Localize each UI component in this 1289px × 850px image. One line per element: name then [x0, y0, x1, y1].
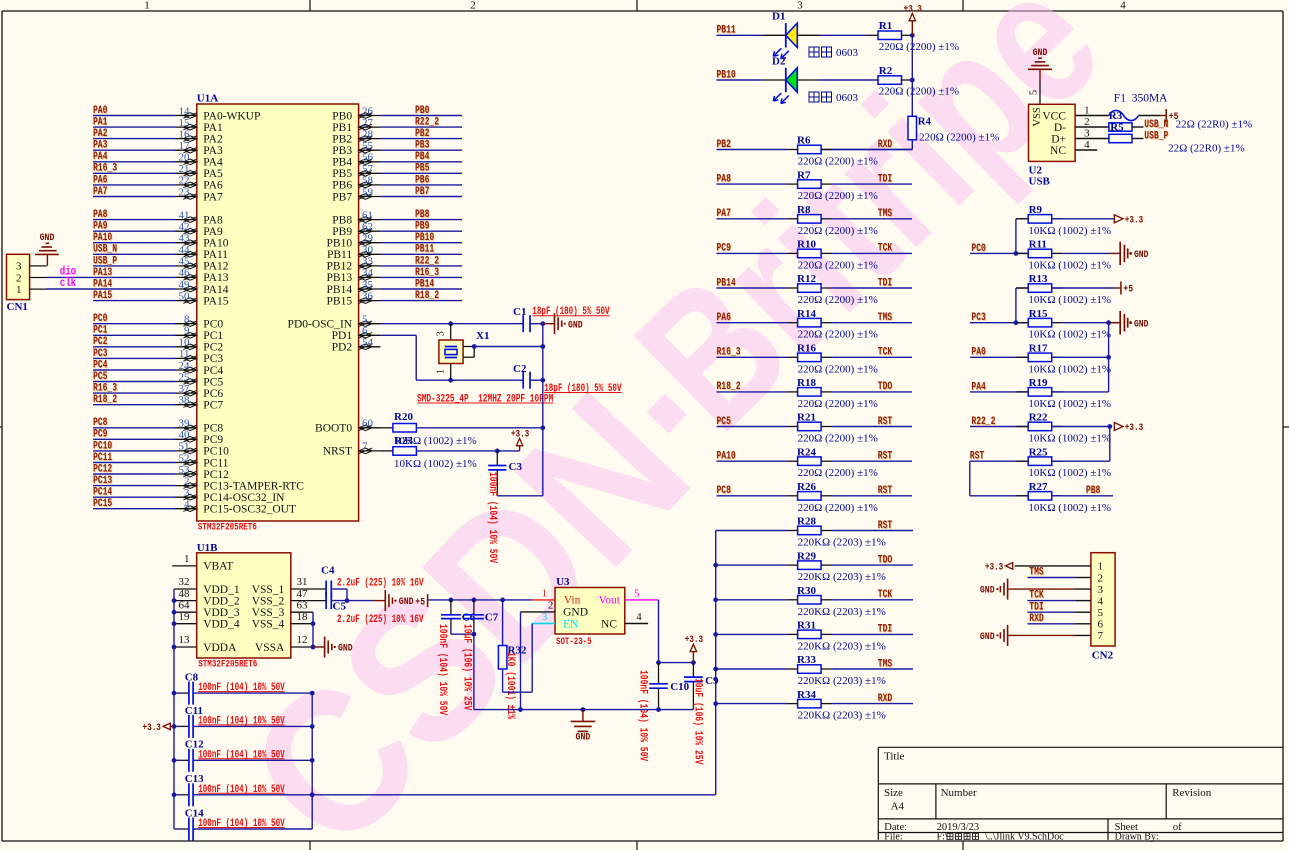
wire + net label PC11 (U1A left row) [93, 452, 175, 464]
svg-text:TDI: TDI [1029, 601, 1043, 613]
wire + net label R16_3 (to R16) [717, 347, 798, 359]
resistor R6 [797, 135, 878, 168]
svg-text:CN2: CN2 [1092, 650, 1114, 662]
svg-text:R6: R6 [797, 135, 811, 147]
wire PB11 to D1 [717, 25, 786, 37]
svg-text:GND: GND [1033, 47, 1048, 59]
wire + net label PA6 (to R14) [717, 312, 798, 324]
svg-text:4: 4 [636, 612, 642, 623]
svg-text:R22_2: R22_2 [971, 416, 995, 428]
svg-text:PA10: PA10 [203, 238, 228, 250]
svg-text:11: 11 [179, 348, 190, 360]
svg-text:57: 57 [362, 163, 374, 175]
resistor R21 [797, 412, 878, 445]
wire D1 to R1 [797, 34, 878, 36]
svg-text:46: 46 [179, 267, 191, 279]
wire + net label PB8 (from R27) [1052, 485, 1113, 497]
resistor R7 [797, 169, 878, 202]
svg-text:PA3: PA3 [93, 140, 108, 152]
svg-text:R18: R18 [797, 377, 816, 389]
wire R4 to RXD node [821, 140, 912, 150]
svg-text:45: 45 [179, 256, 191, 268]
svg-text:2: 2 [184, 475, 190, 487]
svg-text:\..\Jlink V9.SchDoc: \..\Jlink V9.SchDoc [985, 832, 1064, 843]
svg-text:21: 21 [179, 163, 190, 175]
svg-text:C7: C7 [485, 612, 499, 624]
svg-text:220Ω (2200) ±1%: 220Ω (2200) ±1% [798, 190, 878, 202]
svg-text:PB14: PB14 [327, 284, 353, 296]
svg-text:PB14: PB14 [415, 278, 434, 290]
resistor R1 [878, 20, 959, 53]
power +3.3 (CN2 pin1) [985, 562, 1091, 574]
svg-text:28: 28 [362, 128, 374, 140]
svg-text:RST: RST [878, 520, 893, 532]
power +3.3 (LED rail) [904, 3, 922, 35]
wire + net label PC3 [970, 288, 1028, 325]
svg-text:VBAT: VBAT [203, 561, 233, 573]
wire R2 to +3.3 rail [901, 78, 914, 83]
svg-text:3: 3 [1098, 584, 1104, 596]
svg-text:3: 3 [797, 0, 803, 12]
svg-text:220Ω (2200) ±1%: 220Ω (2200) ±1% [798, 398, 878, 410]
svg-text:22Ω (22R0) ±1%: 22Ω (22R0) ±1% [1176, 118, 1253, 130]
svg-text:50: 50 [179, 290, 191, 302]
svg-text:36: 36 [362, 290, 374, 302]
resistor R14 [797, 308, 878, 341]
svg-text:U1B: U1B [197, 542, 218, 554]
wire + net label PA2 (U1A left row) [93, 128, 175, 140]
wire + net label TDI (from R31) [821, 624, 913, 636]
svg-text:PA12: PA12 [203, 261, 228, 273]
wire + net label PB3 (U1A right row) [380, 140, 462, 152]
svg-text:C2: C2 [513, 363, 527, 375]
resistor R30 [716, 585, 886, 618]
wire + net label R16_3 (U1A left row) [93, 383, 175, 395]
svg-text:R7: R7 [797, 169, 811, 181]
wire R11 to GND [1062, 242, 1148, 265]
wire + net label PC0 (U1A left row) [93, 313, 175, 325]
svg-text:220Ω (2200) ±1%: 220Ω (2200) ±1% [798, 294, 878, 306]
svg-text:R12: R12 [797, 273, 816, 285]
ground GND (U3) [571, 710, 596, 744]
svg-text:PC7: PC7 [203, 400, 223, 412]
ground GND (C4/C5) [374, 590, 414, 611]
svg-text:USB_N: USB_N [1144, 119, 1168, 131]
svg-text:PA13: PA13 [203, 272, 228, 284]
svg-text:PB14: PB14 [717, 277, 736, 289]
svg-text:R5: R5 [1110, 122, 1124, 134]
svg-text:61: 61 [362, 209, 373, 221]
svg-text:PB4: PB4 [332, 157, 352, 169]
wire D2 to R2 [797, 79, 878, 81]
resistor R25 [1017, 446, 1112, 479]
svg-text:19: 19 [179, 611, 191, 623]
svg-text:USB: USB [1029, 176, 1051, 188]
svg-text:54: 54 [362, 337, 374, 349]
svg-text:VSS_1: VSS_1 [252, 584, 285, 596]
svg-text:PA7: PA7 [203, 191, 223, 203]
svg-text:R16_3: R16_3 [415, 267, 439, 279]
wire PD0 to crystal/C1 [380, 321, 523, 326]
svg-text:PA7: PA7 [93, 186, 107, 198]
wire + net label TDI (CN2) [1027, 601, 1091, 613]
svg-text:39: 39 [179, 418, 191, 430]
svg-text:PA7: PA7 [717, 208, 731, 220]
svg-text:220Ω (2200) ±1%: 220Ω (2200) ±1% [879, 41, 959, 53]
svg-text:TCK: TCK [878, 347, 893, 359]
resistor R5 (USB D-) [1109, 122, 1132, 134]
svg-text:C9: C9 [705, 675, 719, 687]
LED D1 (yellow) [772, 11, 797, 59]
svg-text:C10: C10 [670, 681, 689, 693]
svg-text:PB11: PB11 [415, 244, 434, 256]
svg-text:1: 1 [542, 589, 547, 600]
svg-text:4: 4 [1120, 0, 1126, 12]
svg-text:GND: GND [338, 643, 353, 655]
svg-text:PC1: PC1 [93, 325, 108, 337]
svg-text:PB15: PB15 [327, 295, 353, 307]
capacitor C4 [321, 565, 424, 598]
svg-text:R18_2: R18_2 [415, 290, 439, 302]
svg-text:TMS: TMS [878, 658, 893, 670]
wire R1 to +3.3 rail [901, 33, 914, 38]
svg-text:PA8: PA8 [717, 173, 732, 185]
svg-text:PC8: PC8 [203, 423, 223, 435]
svg-text:PB9: PB9 [332, 226, 352, 238]
svg-text:TDO: TDO [878, 554, 893, 566]
connector CN2 [1091, 553, 1115, 662]
wire GND vertical line [542, 324, 544, 496]
svg-text:41: 41 [179, 209, 190, 221]
svg-text:PA2: PA2 [93, 128, 107, 140]
svg-text:R3: R3 [1109, 110, 1123, 122]
connector CN1 [7, 254, 47, 313]
svg-text:100nF (104) 10% 50V: 100nF (104) 10% 50V [198, 784, 285, 796]
svg-text:PA15: PA15 [203, 295, 228, 307]
svg-text:Vout: Vout [598, 595, 620, 607]
svg-text:2: 2 [470, 0, 476, 12]
ground GND (CN1 pin 3) [35, 232, 59, 266]
resistor R9 [1016, 204, 1111, 237]
resistor R23 (NRST pullup) [380, 447, 476, 470]
resistor R33 [716, 654, 886, 687]
title block [878, 747, 1283, 842]
svg-text:3: 3 [542, 612, 547, 623]
svg-text:U1A: U1A [197, 93, 218, 105]
ground GND (CN2 pin3) [980, 579, 1091, 600]
svg-text:R29: R29 [797, 550, 816, 562]
wire +5 rail to U3 Vin [428, 598, 532, 603]
svg-text:VDD_4: VDD_4 [203, 619, 240, 631]
svg-text:R34: R34 [797, 689, 816, 701]
svg-text:GND: GND [399, 596, 414, 608]
capacitor C2 [513, 363, 622, 395]
wire R15 to GND [1062, 311, 1148, 335]
svg-text:16: 16 [179, 128, 191, 140]
svg-text:PB8: PB8 [1086, 485, 1101, 497]
svg-text:PA6: PA6 [717, 312, 731, 324]
svg-text:220Ω (2200) ±1%: 220Ω (2200) ±1% [798, 225, 878, 237]
svg-text:10KΩ (1002) ±1%: 10KΩ (1002) ±1% [1028, 225, 1111, 237]
wire R19 to GND link [1052, 323, 1109, 392]
svg-text:PC3: PC3 [971, 312, 986, 324]
svg-text:PC5: PC5 [717, 416, 732, 428]
wire + net label PA3 (U1A left row) [93, 140, 175, 152]
wire + net label PB6 (U1A right row) [380, 174, 462, 186]
wire + net label RST (R25) [970, 451, 1028, 463]
ground GND (USB shell) [1028, 47, 1052, 105]
svg-text:23: 23 [179, 186, 191, 198]
capacitor C13 [174, 773, 315, 806]
wire + net label PB10 (U1A right row) [380, 232, 462, 244]
svg-text:PA8: PA8 [203, 214, 223, 226]
wire + net label PC3 (U1A left row) [93, 348, 175, 360]
svg-text:PB10: PB10 [415, 232, 434, 244]
svg-text:17: 17 [179, 140, 191, 152]
power +5 (input) [427, 594, 429, 607]
svg-text:13: 13 [179, 634, 191, 646]
svg-text:R19: R19 [1029, 377, 1048, 389]
resistor R8 [797, 204, 878, 237]
svg-text:PB0: PB0 [415, 105, 429, 117]
wire C2 to GND line [530, 378, 545, 383]
svg-text:+3.3: +3.3 [1125, 215, 1143, 227]
svg-text:5: 5 [1028, 90, 1039, 95]
capacitor C14 [174, 807, 312, 840]
capacitor C7 [461, 600, 499, 711]
svg-text:10uF (106) 10% 25V: 10uF (106) 10% 25V [461, 624, 473, 711]
wire + net label TMS (CN2) [1027, 567, 1091, 579]
svg-text:6: 6 [1098, 619, 1104, 631]
crystal X1 [435, 324, 489, 381]
wire + net label R22_2 (U1A right row) [380, 117, 462, 129]
wire R22 to +3.3 [1052, 422, 1144, 434]
svg-text:2: 2 [1084, 116, 1090, 128]
capacitor C9 [684, 663, 719, 765]
svg-text:PA0-WKUP: PA0-WKUP [203, 110, 260, 122]
wire + net label PC12 (U1A left row) [93, 463, 175, 475]
svg-text:+3.3: +3.3 [985, 562, 1003, 574]
svg-text:PB11: PB11 [327, 249, 352, 261]
wire + net label PA15 (U1A left row) [93, 290, 175, 302]
svg-text:PC5: PC5 [203, 376, 223, 388]
wire + net label PB5 (U1A right row) [380, 163, 462, 175]
svg-text:12: 12 [297, 634, 308, 646]
svg-text:PC10: PC10 [93, 440, 112, 452]
wire + net label USB_N [1132, 119, 1168, 131]
wire R25 to R22 node [1052, 427, 1110, 462]
svg-text:PA0: PA0 [971, 347, 985, 359]
svg-text:PB3: PB3 [415, 140, 430, 152]
svg-text:R15: R15 [1029, 308, 1048, 320]
svg-text:PA10: PA10 [717, 451, 736, 463]
svg-text:PB9: PB9 [415, 221, 429, 233]
svg-text:NC: NC [601, 618, 617, 630]
wire + net label R18_2 (U1A right row) [380, 290, 462, 302]
svg-text:20: 20 [179, 152, 191, 164]
svg-text:VDD_2: VDD_2 [203, 595, 240, 607]
svg-text:TMS: TMS [878, 312, 893, 324]
svg-text:1: 1 [144, 0, 150, 12]
svg-text:VDD_3: VDD_3 [203, 607, 240, 619]
svg-text:PA15: PA15 [93, 290, 112, 302]
svg-text:1: 1 [16, 284, 22, 296]
ground GND (C1) [543, 313, 583, 334]
svg-text:A4: A4 [891, 801, 905, 813]
svg-text:PC12: PC12 [93, 463, 112, 475]
wire U3 EN to R32 [503, 624, 533, 693]
svg-text:5: 5 [362, 314, 368, 326]
svg-text:R25: R25 [1029, 446, 1048, 458]
capacitor C3 [486, 451, 523, 564]
svg-text:PB2: PB2 [332, 133, 352, 145]
svg-text:29: 29 [362, 233, 374, 245]
svg-text:2: 2 [1098, 572, 1104, 584]
svg-text:220Ω (2200) ±1%: 220Ω (2200) ±1% [798, 363, 878, 375]
wire C4/C5 to GND [332, 589, 374, 603]
svg-text:GND: GND [980, 631, 995, 643]
wire + net label PB14 (U1A right row) [380, 278, 462, 290]
svg-text:R16_3: R16_3 [717, 347, 741, 359]
resistor R4 [908, 116, 999, 144]
wire + net label PB9 (U1A right row) [380, 221, 462, 233]
power +3.3 (VDD bus) [143, 722, 175, 734]
svg-text:2: 2 [548, 601, 553, 612]
wire + net label R18_2 (to R18) [717, 381, 798, 393]
wire + net label TMS (from R33) [821, 658, 913, 670]
svg-text:PC15: PC15 [93, 498, 112, 510]
resistor R20 (BOOT0 pulldown) [380, 411, 476, 447]
wire + net label PB2 (to R6) [717, 139, 798, 151]
svg-text:PB6: PB6 [415, 174, 429, 186]
svg-text:PA9: PA9 [203, 226, 223, 238]
svg-text:VSS: VSS [1032, 107, 1043, 126]
svg-text:220KΩ (2203) ±1%: 220KΩ (2203) ±1% [798, 571, 886, 583]
svg-text:220Ω (2200) ±1%: 220Ω (2200) ±1% [798, 467, 878, 479]
IC U1B STM32F205RET6 power pins [172, 542, 326, 671]
svg-text:100nF (104) 10% 50V: 100nF (104) 10% 50V [637, 670, 649, 761]
svg-text:PB4: PB4 [415, 151, 430, 163]
wire + net label PA0 (U1A left row) [93, 105, 175, 117]
wire + net label R22_2 (U1A right row) [380, 255, 462, 267]
svg-text:PC1: PC1 [203, 330, 223, 342]
svg-text:40: 40 [179, 429, 191, 441]
svg-text:R21: R21 [797, 412, 816, 424]
wire NRST node [416, 449, 519, 454]
resistor R12 [797, 273, 878, 306]
svg-text:R10: R10 [797, 239, 816, 251]
svg-text:4: 4 [184, 499, 190, 511]
svg-text:52: 52 [179, 452, 190, 464]
resistor R18 [797, 377, 878, 410]
svg-text:PC0: PC0 [971, 243, 985, 255]
wire + net label USB_N (U1A left row) [93, 244, 175, 256]
svg-text:RST: RST [878, 416, 893, 428]
svg-text:100nF (104) 10% 50V: 100nF (104) 10% 50V [198, 715, 285, 727]
svg-text:R17: R17 [1029, 343, 1048, 355]
wire + net label PB8 (U1A right row) [380, 209, 462, 221]
svg-text:PA6: PA6 [203, 180, 223, 192]
svg-text:R22_2: R22_2 [415, 255, 439, 267]
svg-text:R16_3: R16_3 [93, 383, 117, 395]
svg-text:18pF (180) 5% 50V: 18pF (180) 5% 50V [544, 383, 622, 395]
svg-text:PA14: PA14 [203, 284, 228, 296]
svg-text:PC10: PC10 [203, 446, 229, 458]
svg-text:5: 5 [634, 589, 639, 600]
svg-text:VDDA: VDDA [203, 642, 237, 654]
wire right VSS cap bus [311, 693, 313, 829]
wire + net label RST (from R28) [821, 520, 913, 532]
svg-text:PB13: PB13 [327, 272, 353, 284]
svg-text:PA0: PA0 [93, 105, 107, 117]
svg-text:PA1: PA1 [203, 122, 223, 134]
fuse F1 [1109, 93, 1168, 123]
svg-text:VSS_4: VSS_4 [252, 619, 285, 631]
wire + net label RXD (CN2) [1027, 613, 1091, 625]
wire + net label PC8 (U1A left row) [93, 417, 175, 429]
svg-text:PC4: PC4 [203, 365, 223, 377]
svg-text:PC3: PC3 [93, 348, 108, 360]
svg-text:PB8: PB8 [332, 214, 352, 226]
wire + net label TCK (from R16) [821, 347, 912, 359]
svg-text:File:: File: [884, 832, 902, 843]
wire + net label TCK (from R10) [821, 243, 912, 255]
resistor R22 [1017, 412, 1112, 445]
resistor R27 [1017, 481, 1112, 514]
wire VDD bus [172, 589, 177, 829]
svg-text:220KΩ (2203) ±1%: 220KΩ (2203) ±1% [798, 537, 886, 549]
svg-text:PC8: PC8 [717, 485, 732, 497]
svg-text:48: 48 [179, 588, 191, 600]
svg-text:VSSA: VSSA [255, 642, 285, 654]
svg-text:R9: R9 [1029, 204, 1043, 216]
svg-text:STM32F205RET6: STM32F205RET6 [198, 659, 257, 671]
svg-text:X1: X1 [476, 330, 489, 342]
svg-text:R1: R1 [879, 20, 892, 32]
svg-text:220KΩ (2203) ±1%: 220KΩ (2203) ±1% [798, 606, 886, 618]
label 绿灯 0603 [809, 92, 859, 104]
capacitor C5 [326, 592, 424, 626]
svg-text:14: 14 [179, 105, 191, 117]
wire + net label PA6 (U1A left row) [93, 174, 175, 186]
wire + net label PA13 (U1A left row) [47, 267, 176, 279]
power +3.3 (U3 Vout) [685, 634, 703, 662]
svg-text:37: 37 [179, 383, 191, 395]
svg-text:PC6: PC6 [203, 388, 223, 400]
svg-text:220Ω (2200) ±1%: 220Ω (2200) ±1% [919, 132, 999, 144]
svg-text:PC9: PC9 [717, 243, 731, 255]
svg-text:5: 5 [1098, 607, 1104, 619]
wire Vout node [656, 600, 696, 665]
svg-text:PA6: PA6 [93, 174, 107, 186]
svg-text:2: 2 [16, 272, 22, 284]
IC U1A STM32F205RET6 [175, 93, 380, 534]
svg-text:PA11: PA11 [203, 249, 228, 261]
svg-text:PB0: PB0 [332, 110, 352, 122]
wire + net label USB_P (U1A left row) [93, 255, 175, 267]
svg-text:USB_P: USB_P [93, 255, 117, 267]
svg-text:35: 35 [362, 279, 374, 291]
wire + net label PC14 (U1A left row) [93, 487, 175, 499]
wire + net label R22_2 [970, 416, 1028, 428]
resistor R16 [797, 343, 878, 376]
wire + net label PA10 (to R24) [717, 451, 798, 463]
wire + net label PA1 (U1A left row) [93, 117, 175, 129]
svg-text:10KΩ (1002) ±1%: 10KΩ (1002) ±1% [1028, 294, 1111, 306]
wire + net label PA0 [970, 347, 1028, 359]
svg-text:PC11: PC11 [93, 452, 112, 464]
svg-text:10KΩ (1002) ±1%: 10KΩ (1002) ±1% [394, 458, 477, 470]
